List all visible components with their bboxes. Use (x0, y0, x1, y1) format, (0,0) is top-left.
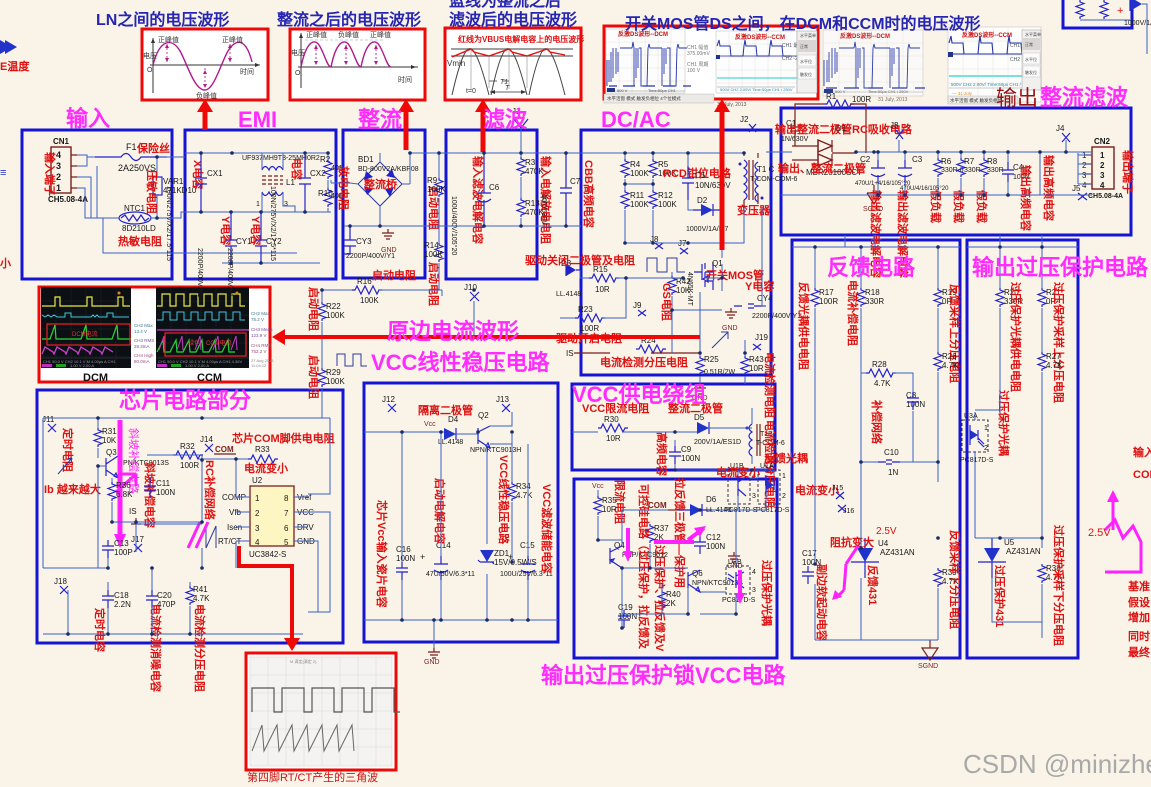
resistor R32 (173, 442, 203, 470)
dark scope CCM (156, 287, 249, 368)
box top-right snubber fragment (1063, 0, 1132, 28)
svg-text:蓝线为整流之后: 蓝线为整流之后 (449, 0, 561, 10)
svg-text:10K: 10K (676, 286, 691, 295)
svg-text:5: 5 (284, 538, 289, 547)
svg-text:Q3: Q3 (106, 448, 117, 457)
dark scope DCM (41, 287, 131, 368)
capacitor C10 (861, 448, 938, 477)
svg-text:6.8K: 6.8K (116, 490, 133, 499)
svg-text:R27: R27 (1046, 352, 1061, 361)
port J12 (388, 404, 396, 412)
COM + diode D6 (648, 495, 731, 516)
wires EMI (185, 153, 331, 263)
svg-text:R43: R43 (749, 355, 764, 364)
svg-text:R13: R13 (525, 199, 540, 208)
svg-text:输出、整流二极管: 输出、整流二极管 (778, 161, 866, 175)
svg-text:DC/AC: DC/AC (601, 107, 671, 132)
svg-text:芯片COM脚供电电阻: 芯片COM脚供电电阻 (232, 431, 335, 445)
svg-text:D5: D5 (694, 413, 705, 422)
resistor R39 (934, 568, 959, 638)
svg-text:J17: J17 (131, 535, 144, 544)
main bus wires filter (344, 128, 537, 226)
svg-text:电压: 电压 (291, 48, 305, 57)
svg-text:电流检测分压电阻: 电流检测分压电阻 (193, 604, 207, 692)
svg-text:100K: 100K (630, 200, 649, 209)
box chip circuit section (37, 390, 343, 643)
optocouplers U1B U1A top right (724, 463, 758, 514)
box DC/AC section (581, 130, 771, 375)
start resistors R9 R14 between boxes (424, 153, 446, 290)
svg-text:COM: COM (215, 445, 234, 454)
svg-text:O: O (147, 67, 153, 74)
svg-text:2: 2 (255, 509, 260, 518)
svg-text:开关MOS管: 开关MOS管 (706, 268, 764, 282)
svg-text:0.51R/2W: 0.51R/2W (704, 369, 736, 376)
svg-text:47U/50V/6.3*11: 47U/50V/6.3*11 (426, 571, 475, 578)
svg-text:1N: 1N (888, 468, 898, 477)
port J10 (470, 292, 479, 301)
svg-text:1: 1 (255, 494, 260, 503)
svg-text:电流变小: 电流变小 (244, 461, 288, 475)
capacitor C5 (682, 166, 731, 200)
svg-text:SGND: SGND (918, 663, 938, 670)
svg-text:1: 1 (256, 201, 260, 208)
connector CN2 (1082, 137, 1123, 200)
resistors R20 R21 top (996, 247, 1061, 418)
svg-text:输出高频电容: 输出高频电容 (1019, 165, 1033, 231)
svg-text:100N: 100N (706, 542, 725, 551)
gate square wave glyph (647, 258, 685, 272)
svg-text:芯片Vcc输入瓷片电容: 芯片Vcc输入瓷片电容 (375, 500, 389, 608)
svg-text:COM: COM (648, 501, 667, 510)
left chevrons (0, 40, 17, 54)
resistor R30 (598, 415, 628, 443)
svg-text:C7: C7 (570, 177, 581, 186)
svg-text:R9: R9 (427, 176, 438, 185)
svg-text:正峰值: 正峰值 (306, 30, 327, 39)
port J3 (896, 130, 903, 139)
svg-text:C9: C9 (681, 445, 692, 454)
red arrow from rectifier box to waveform 2 (404, 108, 409, 150)
svg-text:R1: R1 (826, 92, 837, 101)
svg-text:J9: J9 (633, 301, 642, 310)
svg-text:1: 1 (1100, 151, 1105, 160)
svg-text:VAR1: VAR1 (163, 177, 184, 186)
svg-text:水平位: 水平位 (800, 58, 812, 64)
svg-text:RC补偿网络: RC补偿网络 (203, 460, 217, 520)
svg-text:R36: R36 (116, 481, 131, 490)
svg-text:2200P/400V/Y1: 2200P/400V/Y1 (196, 248, 203, 297)
svg-text:CH3 Mean: CH3 Mean (251, 327, 273, 332)
svg-text:R7: R7 (964, 157, 975, 166)
svg-text:反馈电路: 反馈电路 (827, 255, 916, 280)
svg-text:C5: C5 (695, 171, 706, 180)
wires vcc linear (364, 412, 558, 648)
svg-text:100N: 100N (396, 554, 415, 563)
svg-text:3: 3 (752, 587, 756, 594)
svg-text:最终: 最终 (1128, 645, 1151, 659)
red arrow from filter box to waveform 3 (481, 108, 486, 152)
svg-text:副边软起动电容: 副边软起动电容 (815, 564, 829, 641)
svg-text:100P: 100P (114, 548, 133, 557)
svg-text:Vmin: Vmin (447, 59, 465, 68)
svg-text:13.4 V: 13.4 V (134, 329, 147, 334)
svg-text:J11: J11 (42, 415, 55, 424)
svg-text:2: 2 (56, 172, 61, 182)
svg-text:阻抗变大: 阻抗变大 (830, 535, 874, 549)
capacitor CX2 (269, 153, 326, 261)
svg-text:CY1: CY1 (236, 237, 252, 246)
svg-text:输入端子: 输入端子 (43, 152, 57, 196)
svg-text:10R: 10R (749, 364, 764, 373)
svg-text:保险丝: 保险丝 (136, 141, 170, 155)
svg-text:1: 1 (984, 425, 988, 432)
svg-text:输出过压保护锁VCC电路: 输出过压保护锁VCC电路 (541, 663, 786, 688)
SGND feedback (918, 640, 938, 670)
svg-text:2.2N: 2.2N (114, 600, 131, 609)
svg-text:压敏电阻: 压敏电阻 (145, 170, 159, 214)
svg-text:COM: COM (1133, 469, 1151, 481)
svg-text:CH5.08-4A: CH5.08-4A (1088, 193, 1123, 200)
svg-text:J15: J15 (832, 485, 843, 492)
svg-text:NPN/KTC9013H: NPN/KTC9013H (470, 447, 521, 454)
svg-text:芯片电路部分: 芯片电路部分 (119, 388, 251, 413)
svg-text:R6: R6 (941, 157, 952, 166)
svg-text:水平活窗 模式 触发负相位 4个位模式: 水平活窗 模式 触发负相位 4个位模式 (607, 95, 681, 102)
capacitor C6 electrolytic (450, 153, 500, 255)
svg-text:F1: F1 (126, 142, 137, 152)
svg-text:752.2 V: 752.2 V (251, 349, 267, 354)
svg-text:1: 1 (56, 183, 61, 193)
svg-text:R30: R30 (604, 415, 619, 424)
svg-text:C18: C18 (114, 591, 129, 600)
svg-text:U2: U2 (252, 476, 263, 485)
capacitor C7 between filter and DCAC (537, 153, 581, 226)
svg-text:CX2: CX2 (310, 169, 326, 178)
magenta down arrow sketch feedback (836, 546, 858, 598)
svg-text:2.5V: 2.5V (876, 526, 897, 537)
svg-text:LL.4148: LL.4148 (556, 291, 581, 298)
svg-text:80.0mA: 80.0mA (134, 359, 150, 364)
svg-text:Y电容: Y电容 (745, 279, 774, 293)
port J14 / COM (205, 444, 213, 452)
capacitor C13 (102, 539, 133, 558)
capacitor CX1 (165, 153, 223, 261)
svg-text:R17: R17 (819, 288, 834, 297)
box filter section (446, 130, 537, 279)
svg-text:LN之间的电压波形: LN之间的电压波形 (96, 10, 229, 29)
svg-text:AZ431AN: AZ431AN (880, 548, 915, 557)
capacitor C19 (618, 603, 637, 628)
svg-text:8: 8 (284, 494, 289, 503)
svg-text:1N/630V: 1N/630V (781, 136, 809, 143)
waveform box 1: LN sine wave (142, 29, 268, 100)
svg-text:10N/630V: 10N/630V (540, 194, 547, 225)
resistor R29 (318, 368, 345, 387)
port J9 (638, 310, 646, 316)
svg-text:100N: 100N (156, 488, 175, 497)
wires output rect (789, 140, 1092, 195)
electrolytic C15 (500, 541, 553, 580)
svg-text:R37: R37 (654, 524, 669, 533)
svg-text:10N/630V: 10N/630V (695, 181, 731, 190)
ports J8 J7 (655, 243, 688, 254)
svg-text:O: O (295, 70, 301, 77)
snubber R1 C1 loop (781, 92, 871, 153)
svg-text:输出高频电容: 输出高频电容 (1042, 155, 1056, 221)
svg-text:IS: IS (566, 349, 574, 358)
box EMI section (185, 130, 336, 279)
Y-cap CY4 (712, 279, 801, 348)
svg-text:100R: 100R (580, 324, 599, 333)
svg-text:R4: R4 (630, 160, 641, 169)
svg-text:330R 6: 330R 6 (941, 167, 964, 174)
resistor R38 (1038, 564, 1063, 638)
svg-text:反激DS波形--DCM: 反激DS波形--DCM (840, 32, 890, 40)
svg-text:31 July, 2013: 31 July, 2013 (878, 97, 908, 103)
diode D3 + R15 (556, 259, 683, 298)
capacitor C18 (102, 590, 131, 609)
svg-text:J19: J19 (755, 333, 768, 342)
optocoupler U3A LED side (960, 413, 994, 464)
svg-text:3: 3 (1082, 171, 1087, 180)
svg-text:水平位: 水平位 (1025, 56, 1037, 62)
svg-text:4.7K: 4.7K (516, 491, 533, 500)
svg-text:正峰值: 正峰值 (370, 30, 391, 39)
svg-text:≡: ≡ (0, 167, 6, 179)
svg-text:J4: J4 (1056, 124, 1065, 133)
svg-text:11:04:12: 11:04:12 (251, 363, 267, 368)
resistors R4 R5 R11 R12 (621, 153, 677, 243)
svg-text:R34: R34 (516, 482, 531, 491)
svg-text:IS: IS (129, 507, 137, 516)
svg-text:第四脚RT/CT产生的三角波: 第四脚RT/CT产生的三角波 (247, 770, 378, 784)
wire transformer secondary to output box (762, 151, 792, 153)
scope side panel box4 (797, 31, 817, 93)
svg-text:100K: 100K (630, 169, 649, 178)
svg-text:正常: 正常 (1025, 41, 1033, 47)
svg-text:输出过压保护电路: 输出过压保护电路 (972, 255, 1149, 280)
svg-text:10R: 10R (595, 285, 610, 294)
svg-text:电流检测消噪电容: 电流检测消噪电容 (149, 604, 163, 692)
svg-text:R33: R33 (255, 445, 270, 454)
svg-text:R3: R3 (525, 158, 536, 167)
svg-text:D6: D6 (706, 495, 717, 504)
svg-text:10R: 10R (606, 434, 621, 443)
svg-text:整流之后的电压波形: 整流之后的电压波形 (276, 10, 421, 29)
capacitor C9 (669, 445, 700, 464)
transistor Q2 (470, 411, 521, 454)
box VCC linear regulator section (364, 383, 558, 642)
svg-text:330R: 330R (987, 167, 1004, 174)
svg-text:水平菜单: 水平菜单 (1025, 31, 1041, 37)
Y-caps CY1 CY2 (196, 212, 282, 297)
svg-text:时间: 时间 (398, 75, 412, 84)
svg-text:滤波: 滤波 (483, 107, 528, 132)
svg-text:负峰值: 负峰值 (338, 30, 359, 39)
svg-text:过压保护431: 过压保护431 (993, 565, 1007, 627)
svg-text:1000V/1A: 1000V/1A (1124, 20, 1151, 27)
wires vcc winding (572, 408, 752, 470)
wires input box (77, 157, 297, 253)
svg-text:VCC线性稳压电路: VCC线性稳压电路 (371, 350, 550, 375)
svg-text:200V/1A/ES1D: 200V/1A/ES1D (694, 439, 741, 446)
svg-text:2200P/400V/Y1: 2200P/400V/Y1 (226, 248, 233, 297)
svg-text:反馈光耦供电电阻: 反馈光耦供电电阻 (797, 282, 811, 370)
svg-text:7: 7 (284, 509, 289, 518)
right magenta waveform sketch (1088, 490, 1141, 572)
svg-text:DCM: DCM (83, 372, 108, 384)
svg-text:500 V: 500 V (617, 88, 628, 93)
svg-text:触发位: 触发位 (800, 71, 812, 77)
svg-text:1.00 V 2.00 A: 1.00 V 2.00 A (185, 363, 209, 368)
svg-text:100K: 100K (326, 311, 345, 320)
top right snubber contents (1076, 0, 1151, 54)
port J19 (753, 344, 761, 350)
resistor R40 (658, 590, 681, 609)
svg-text:BD1: BD1 (358, 155, 374, 164)
box input section (22, 130, 172, 279)
svg-text:CH5.08-4A: CH5.08-4A (48, 195, 88, 204)
svg-text:启动电阻: 启动电阻 (307, 287, 321, 331)
svg-text:330R: 330R (865, 297, 884, 306)
svg-text:滤波后的电压波形: 滤波后的电压波形 (449, 10, 577, 29)
svg-text:VCC供电绕组: VCC供电绕组 (572, 382, 706, 407)
svg-text:D4: D4 (448, 415, 459, 424)
svg-text:CH4 High: CH4 High (134, 353, 154, 358)
transistor Q6 (688, 569, 743, 592)
resistor R26 (934, 352, 959, 482)
svg-text:t=0: t=0 (466, 88, 476, 95)
resistor R37 (646, 524, 669, 543)
svg-text:28.3mA: 28.3mA (134, 344, 150, 349)
TL431 U4 (851, 526, 915, 578)
svg-text:高频电容: 高频电容 (655, 432, 669, 476)
svg-text:增加: 增加 (1128, 610, 1150, 624)
svg-text:C12: C12 (706, 533, 721, 542)
magenta arrows in lock box (626, 528, 630, 558)
ports J4 J5 (1062, 133, 1070, 142)
MOSFET Q1 (686, 259, 723, 307)
wires rectifier (331, 180, 343, 183)
svg-text:330R: 330R (964, 167, 981, 174)
svg-text:小: 小 (0, 256, 11, 270)
svg-text:时间: 时间 (240, 67, 254, 76)
svg-text:100R: 100R (852, 95, 871, 104)
capacitor CY3 (343, 226, 395, 260)
svg-text:1.00 V 2.00 A: 1.00 V 2.00 A (70, 363, 94, 368)
svg-text:E温度: E温度 (0, 59, 30, 73)
zener ZD1 (478, 549, 537, 567)
svg-text:75.2 V: 75.2 V (251, 317, 264, 322)
red arrow from RT/CT pin to triangle wave box (239, 546, 292, 642)
fuse F1 (77, 141, 170, 173)
svg-text:电流补偿电阻: 电流补偿电阻 (846, 280, 860, 346)
svg-text:R22: R22 (326, 302, 341, 311)
svg-text:CN2: CN2 (1094, 137, 1111, 146)
resistor R42 GS (668, 272, 691, 310)
magenta slope-compensation vertical arrow (118, 420, 123, 540)
resistor R16 (336, 277, 442, 305)
port J11 (48, 424, 56, 432)
svg-text:C19: C19 (618, 603, 633, 612)
svg-text:J13: J13 (496, 395, 509, 404)
capacitor C20 (146, 590, 176, 609)
port J18 (60, 586, 68, 594)
svg-text:100R: 100R (819, 297, 838, 306)
resistor R41 (186, 582, 210, 620)
svg-text:3: 3 (752, 493, 756, 500)
magenta bent arrow (116, 474, 136, 492)
square wave glyph before VCC title (337, 354, 367, 366)
scope shot DCM inside box4 (606, 29, 691, 93)
svg-text:反馈采样下分压电阻: 反馈采样下分压电阻 (948, 530, 962, 629)
TL431 U5 (978, 538, 1041, 578)
common-mode choke L1 (242, 153, 320, 212)
svg-text:R12: R12 (658, 191, 673, 200)
svg-text:R8: R8 (987, 157, 998, 166)
svg-text:4: 4 (752, 569, 756, 576)
triangle wave box (RT/CT) (246, 653, 400, 770)
svg-text:15V/0.5W/S: 15V/0.5W/S (494, 558, 537, 567)
svg-text:U3B: U3B (728, 559, 742, 566)
scope shot CCM inside box4 (716, 31, 806, 93)
resistor R23 (560, 278, 626, 333)
wire from outrect box down to fb/ovp (845, 235, 1042, 247)
svg-text:4.7K: 4.7K (874, 379, 891, 388)
box output rectifier filter section (781, 108, 1131, 235)
svg-text:CH4 RMS: CH4 RMS (251, 343, 271, 348)
svg-text:水平活窗 模式 触发负相位: 水平活窗 模式 触发负相位 (950, 97, 1002, 104)
svg-text:2: 2 (782, 493, 786, 500)
wires lock box (598, 470, 774, 628)
svg-text:J3: J3 (890, 121, 899, 130)
svg-text:电流检测电阻: 电流检测电阻 (763, 352, 777, 418)
capacitor C17 (802, 549, 821, 584)
bottom tab strip of box4 (604, 94, 747, 108)
svg-text:VCC线性稳压电路: VCC线性稳压电路 (497, 455, 511, 545)
svg-text:100N/275V/X2/17.5*115: 100N/275V/X2/17.5*115 (165, 186, 172, 261)
diode D5 (694, 413, 741, 446)
side panel S6 (1022, 30, 1041, 90)
svg-text:CY2: CY2 (266, 237, 282, 246)
svg-text:R16: R16 (357, 277, 372, 286)
resistor R28 (861, 360, 913, 392)
svg-text:正峰值: 正峰值 (222, 35, 243, 44)
resistor R27 (1038, 352, 1063, 548)
svg-text:4: 4 (56, 150, 61, 160)
svg-text:定时电容: 定时电容 (93, 608, 107, 652)
box VCC winding section (572, 384, 775, 470)
svg-text:LL.4148: LL.4148 (438, 439, 463, 446)
svg-text:假设: 假设 (1128, 595, 1151, 609)
svg-text:+: + (1117, 5, 1123, 17)
svg-text:启动电阻: 启动电阻 (427, 262, 441, 306)
svg-text:启动电阻: 启动电阻 (372, 268, 416, 282)
svg-text:R23: R23 (578, 305, 593, 314)
wires feedback (792, 247, 960, 640)
svg-text:开关MOS管DS之间，在DCM和CCM时的电压波形: 开关MOS管DS之间，在DCM和CCM时的电压波形 (625, 14, 981, 33)
svg-text:CH3 RMS: CH3 RMS (134, 338, 154, 343)
svg-text:输入: 输入 (1133, 445, 1151, 459)
svg-text:整流桥: 整流桥 (363, 177, 398, 191)
svg-text:CX1: CX1 (207, 169, 223, 178)
diode D2 (686, 153, 729, 243)
blue slope glyph (58, 458, 72, 474)
svg-text:2200P/400V/Y1: 2200P/400V/Y1 (752, 313, 801, 320)
transformer T1 primary (737, 153, 798, 217)
svg-text:J16: J16 (843, 508, 854, 515)
